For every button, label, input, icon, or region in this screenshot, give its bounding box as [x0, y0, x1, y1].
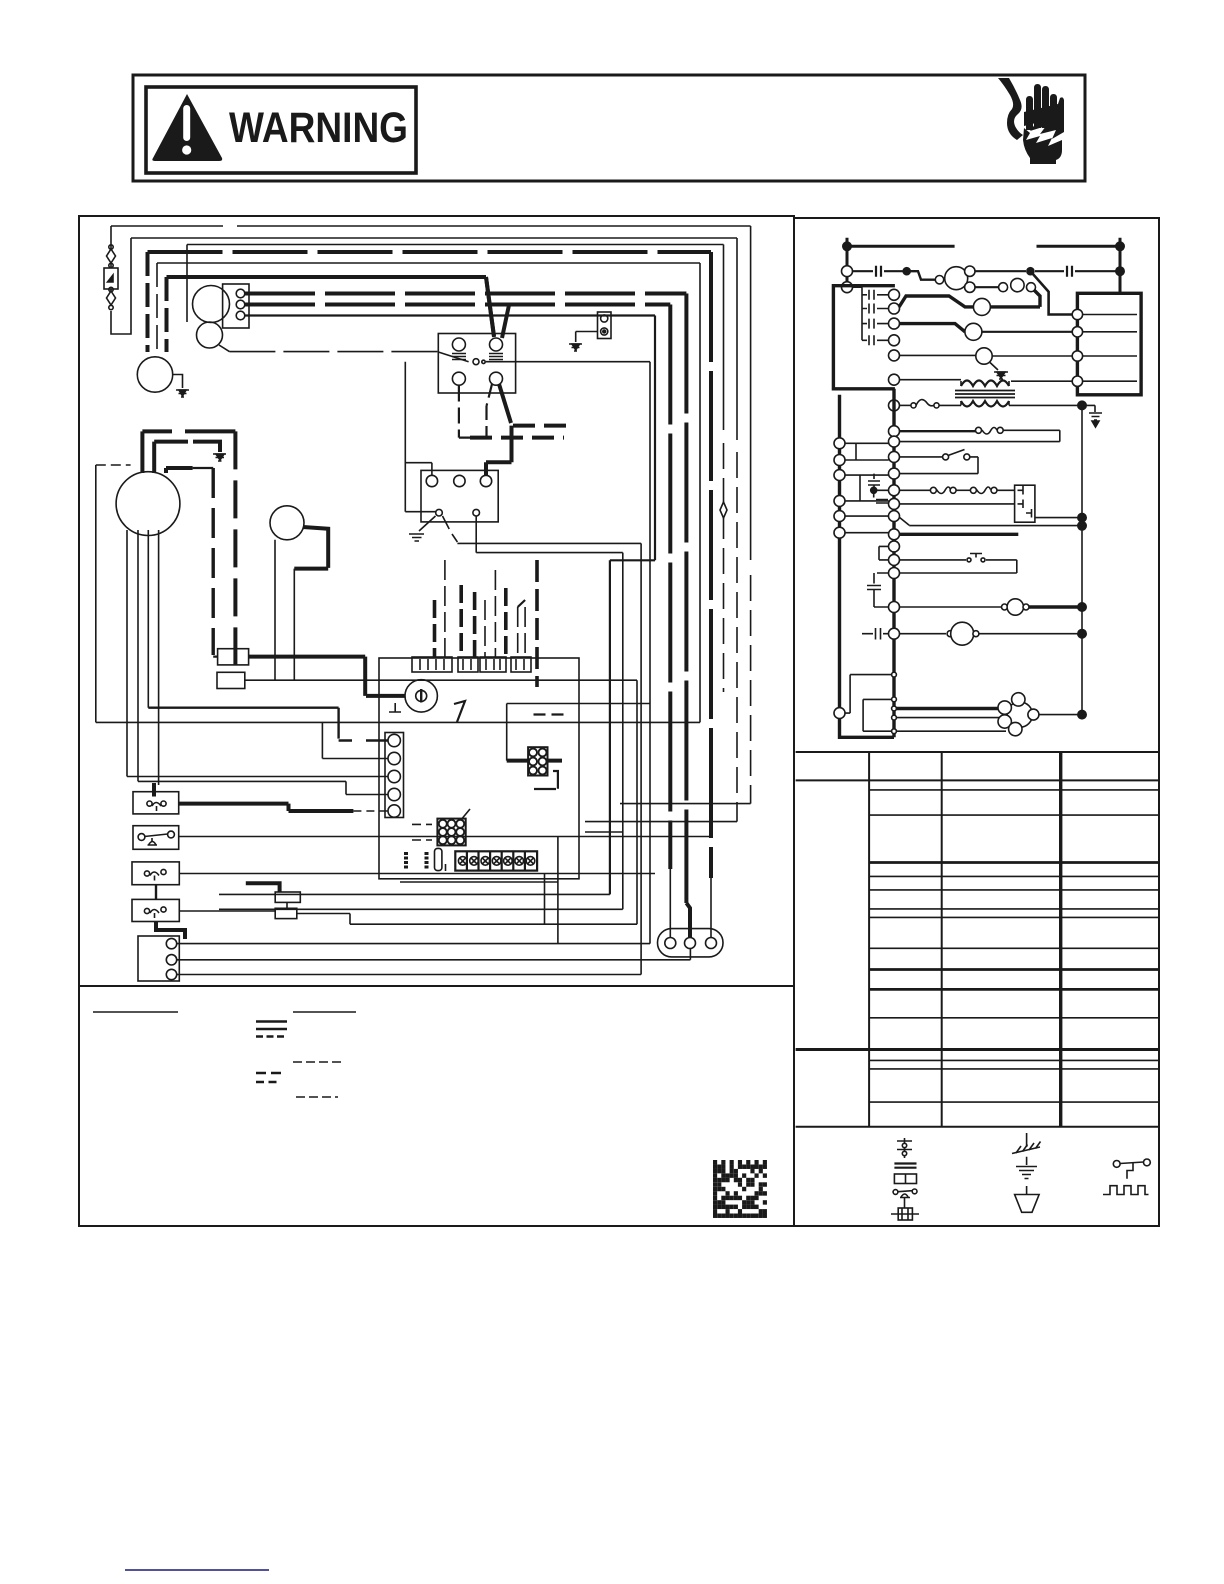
svg-text:WARNING: WARNING — [229, 104, 408, 152]
